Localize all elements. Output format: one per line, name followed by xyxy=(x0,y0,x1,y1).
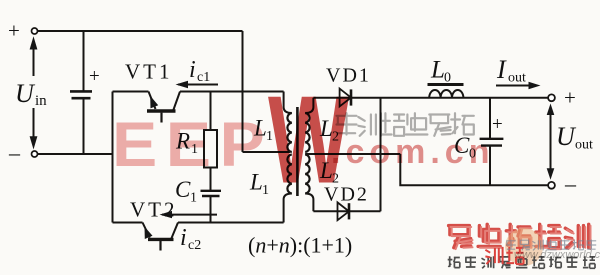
watermark EEPW letters EEP xyxy=(112,113,273,176)
wire rectified top (VD1 row) xyxy=(313,97,548,99)
node plus-out terminal xyxy=(548,94,555,101)
transistor VT1 xyxy=(113,92,284,123)
wire input cap bottom lead xyxy=(83,99,85,154)
watermark big red row outline pass xyxy=(450,226,590,249)
watermark navy small chars xyxy=(506,240,596,251)
watermark red stamp chars xyxy=(485,247,523,264)
watermark url text xyxy=(514,249,600,261)
watermark gray brand row xyxy=(337,113,474,136)
wire bottom rail xyxy=(38,153,113,155)
transformer secondary winding L2 bottom xyxy=(305,155,313,212)
wire output negative step xyxy=(400,154,548,185)
wire center-tap horizontal xyxy=(243,151,291,153)
current arrow ic2 xyxy=(160,211,218,218)
transformer primary winding L1 bottom xyxy=(284,155,292,223)
arrow Iout xyxy=(496,82,541,90)
wire VD2 row xyxy=(313,210,380,212)
wire C0 branch xyxy=(489,98,491,138)
node plus-in terminal xyxy=(32,28,38,34)
arrow Uout double xyxy=(547,104,555,180)
wire top rail xyxy=(38,30,243,32)
watermark big red training row xyxy=(449,224,589,247)
transformer core xyxy=(296,107,299,196)
arrow Uin up xyxy=(30,36,38,76)
node minus-out terminal xyxy=(548,182,555,189)
wire center-tap vertical from top rail xyxy=(242,31,244,152)
inductor L0 xyxy=(428,85,464,98)
wire secondary center tap xyxy=(305,153,400,155)
watermark .com.cn xyxy=(331,135,494,169)
wire input cap drop xyxy=(83,31,85,91)
arrow Uin down xyxy=(30,108,38,150)
wire left vertical xyxy=(112,92,114,223)
transistor VT2 xyxy=(113,223,284,251)
capacitor C0 xyxy=(480,139,504,186)
node minus-in terminal xyxy=(32,151,38,157)
capacitor Cin xyxy=(70,90,92,93)
diode VD2 xyxy=(338,202,350,220)
diode VD1 xyxy=(340,89,351,107)
capacitor C1 xyxy=(201,191,222,223)
resistor R1 xyxy=(204,92,217,191)
transformer secondary winding L2 top xyxy=(305,98,313,152)
watermark EEPW letter W xyxy=(268,79,349,204)
transformer primary winding L1 top xyxy=(284,92,292,153)
watermark small gray slogan row xyxy=(448,256,595,268)
watermark stamp circle xyxy=(505,228,543,266)
wire diode cathode junction vertical xyxy=(380,98,382,212)
current arrow ic1 xyxy=(176,81,219,88)
